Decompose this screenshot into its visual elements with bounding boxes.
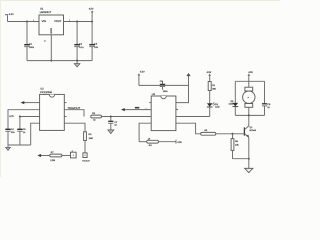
wire U2 pin6 right [64,110,84,117]
svg-text:PIC12F508: PIC12F508 [40,91,52,94]
touch plate TP2 [82,153,90,163]
capacitor C1 [24,22,35,61]
wire U2 ground rail [8,144,31,146]
svg-text:4.5V: 4.5V [177,141,182,144]
wire collector riser [248,115,250,126]
node junction base/R6 [232,133,234,135]
svg-text:4.5V: 4.5V [207,71,212,74]
wire bottom rail U1 [27,60,92,62]
wire U3 pin6 to LED [176,116,210,118]
wire U3 pin3 left [102,116,152,118]
svg-text:4.5V: 4.5V [89,8,94,11]
U3 pin7 stub [176,108,178,109]
U2 reference label [40,88,52,95]
U2 pin7 stub [64,116,66,118]
wire U2 pin2 left [8,110,40,129]
micro U2 box [40,94,65,130]
off-page arrow U3 pin2 [121,108,151,111]
wire R6 to emitter [233,158,249,160]
svg-text:GND: GND [50,28,53,34]
power flag 4.5V LED chain [207,71,212,82]
node junction ground [76,60,78,62]
svg-text:TOUCH: TOUCH [82,160,90,163]
wire R3 to touch plate [84,141,86,153]
wire TP1 to R7 [62,155,71,157]
svg-text:100u: 100u [29,46,35,49]
wire emitter down [248,137,250,168]
net flag OUT [176,140,182,144]
node junction C7 [110,116,112,118]
off-page arrow touch [37,154,50,157]
diode D2 [229,100,239,107]
touch plate TP1 [71,149,77,158]
transistor Q1 [244,126,256,138]
U1 reference label [40,8,52,14]
wire R4 to net flag [159,141,177,143]
wire U3 pin5 to base resistor [176,123,201,134]
capacitor C6 on rail [160,80,169,93]
resistor R5 [201,129,216,135]
wire R1 to LED1 [209,91,211,104]
svg-text:10M: 10M [89,137,93,140]
LED D1 [207,102,220,108]
capacitor C3 [89,22,98,61]
resistor R3 vertical [84,132,93,141]
wire LED1 down to U3 wire [209,107,211,117]
power flag 4.5V output [89,8,94,22]
pin 3 label [69,20,71,22]
pin 2 label [44,40,46,43]
node junction pin3/C5 [19,116,21,118]
wire U3 pin4 to R4 [139,123,151,142]
svg-text:VIN: VIN [42,20,46,23]
U2 output pin label TRIG/OUT [67,107,80,110]
page border tint [0,0,280,177]
power flag 4.5V motor [247,71,253,81]
regulator U1 box [39,15,64,35]
capacitor C4 [5,128,15,145]
node junction collector [248,114,250,116]
wire motor right leg [264,81,266,103]
svg-text:LED: LED [215,106,220,109]
resistor R6 vertical [231,134,239,159]
micro U3 box [151,96,176,131]
svg-text:2.2M: 2.2M [50,159,55,162]
wire motor bottom rail [235,114,264,116]
node junction GND rail [50,60,52,62]
resistor R4 [147,137,159,147]
ground symbol U1 [74,61,80,67]
svg-text:4148: 4148 [229,103,235,106]
wire U1 VOUT to output node [64,21,93,23]
svg-text:4.5V: 4.5V [140,71,145,74]
node junction input/C1 [26,21,28,23]
capacitor C8 [262,103,271,115]
capacitor C2 [74,22,84,61]
wire base [216,133,245,135]
off-page arrow U2 pin1 [21,101,40,104]
power flag 4.5V U3 rail [138,71,146,86]
wire motor left leg [234,81,236,103]
resistor R1 vertical [208,82,216,91]
svg-text:4.5V: 4.5V [248,71,253,74]
U3 reference label [152,93,156,96]
power flag 4.5V input [5,13,14,22]
wire U1 GND pin down [50,35,52,61]
power arrow rail right [186,73,190,86]
ground symbol C7 [108,130,114,134]
svg-text:4.7k: 4.7k [9,115,14,118]
svg-text:4.5V: 4.5V [9,13,14,16]
node junction emitter [248,158,250,160]
wire D2 down [234,107,236,116]
node junction C2 [76,21,78,23]
wire U2 pin8 right [64,123,85,132]
pin 1 label [33,20,35,22]
wire U2 pin3 left [20,116,40,118]
svg-text:BC546: BC546 [250,129,257,132]
svg-text:100n: 100n [163,90,169,93]
resistor R7 [50,151,62,162]
resistor value 4.7k label [9,115,14,118]
U2 pin5 stub [64,102,66,104]
ground symbol U2 [6,145,11,150]
node junction C3 [91,21,93,23]
resistor R2 [91,112,102,122]
capacitor C5 [17,117,26,146]
wire motor top rail [235,80,264,82]
sensor blob on arrow wire [135,107,146,109]
U1 pin names [42,20,62,34]
capacitor C7 [108,117,118,130]
wire input to U1 VIN [8,21,40,23]
wire U2 pin4 left [31,123,40,145]
ground symbol Q1 [245,168,253,172]
U3 pin1 stub [149,102,151,104]
motor M1 [243,81,255,115]
wire rail leg to R4 [139,141,147,143]
svg-text:LM7805CT: LM7805CT [40,11,52,14]
svg-text:VOUT: VOUT [54,20,62,23]
wire rail to U3 pin top right [176,85,189,102]
wire VCC rail U3 [139,84,189,86]
